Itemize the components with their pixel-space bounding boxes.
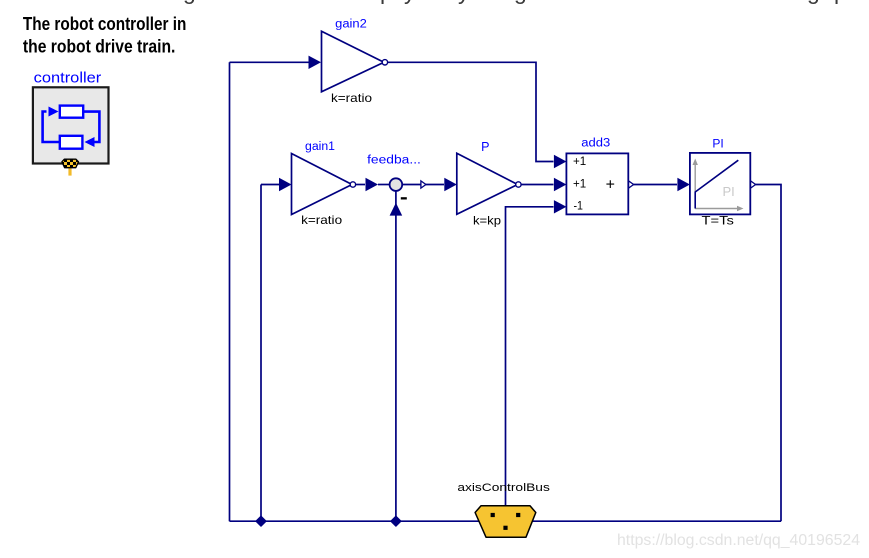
- P triangle: [457, 153, 518, 214]
- cropped serif text descenders at top edge: [183, 0, 847, 4]
- svg-text:axisControlBus: axisControlBus: [457, 482, 550, 494]
- svg-text:The robot controller in: The robot controller in: [23, 13, 187, 34]
- controller icon loop arrow left: [85, 137, 95, 147]
- feedback circle: [390, 178, 403, 191]
- svg-text:k=kp: k=kp: [473, 215, 502, 228]
- gain1 output circle: [350, 182, 355, 187]
- PI gray x-axis: [695, 208, 740, 210]
- arrow into feedback: [366, 178, 379, 191]
- PI gray y-axis: [694, 162, 696, 209]
- controller icon feedback loop wires: [43, 112, 100, 143]
- arrow into add3 top input: [554, 155, 567, 168]
- arrow into gain2: [309, 56, 322, 69]
- svg-text:https://blog.csdn.net/qq_40196: https://blog.csdn.net/qq_40196524: [617, 532, 860, 549]
- PI box: [690, 153, 750, 215]
- heading: The robot controller in the robot drive train.: [23, 13, 187, 57]
- wire: left vertical trunk: [229, 62, 231, 521]
- svg-text:g: g: [514, 0, 527, 4]
- svg-text:-1: -1: [574, 201, 584, 213]
- svg-text:p: p: [834, 0, 847, 4]
- svg-text:add3: add3: [581, 138, 610, 150]
- PI output open arrow: [751, 181, 756, 188]
- svg-text:+1: +1: [573, 156, 586, 168]
- arrow into PI: [677, 178, 690, 191]
- wire: arrow to feedback circle: [378, 184, 389, 186]
- junction dot feedback: [391, 516, 401, 526]
- bus dot 3: [503, 526, 507, 530]
- arrow into add3 middle: [554, 178, 567, 191]
- gain2 output circle: [382, 60, 387, 65]
- wire: feedback bottom vertical: [395, 191, 397, 521]
- arrow into add3 bottom input: [554, 200, 567, 213]
- svg-text:controller: controller: [34, 70, 102, 87]
- svg-text:g: g: [183, 0, 196, 4]
- P output circle: [516, 182, 521, 187]
- arrow into P: [444, 178, 457, 191]
- svg-text:g: g: [807, 0, 820, 4]
- controller icon lower block: [60, 136, 83, 149]
- svg-text:gain1: gain1: [305, 141, 335, 153]
- svg-text:k=ratio: k=ratio: [331, 92, 373, 105]
- wire: vertical to gain1: [261, 185, 280, 522]
- wire: gain1 to feedback: [356, 184, 365, 186]
- wire: bus up to add3 minus input: [506, 207, 554, 506]
- controller icon upper block: [60, 106, 83, 118]
- bus dot 1: [491, 513, 495, 517]
- svg-text:y: y: [458, 0, 470, 4]
- wire: gain2 output to add3 top input: [388, 62, 554, 161]
- controller icon loop arrow right: [49, 107, 59, 117]
- junction dot left: [256, 516, 266, 526]
- wire: top horizontal to gain2: [230, 61, 310, 63]
- add3 box: [566, 153, 628, 214]
- controller icon mini bus connector (checkered): [62, 159, 79, 168]
- svg-text:T=Ts: T=Ts: [702, 215, 734, 228]
- svg-text:+: +: [606, 177, 615, 194]
- controller icon bus connector stem: [68, 167, 71, 176]
- svg-text:P: P: [481, 140, 489, 154]
- add3 output open arrow: [629, 181, 634, 188]
- svg-text:k=ratio: k=ratio: [301, 214, 343, 227]
- PI response curve: [695, 160, 738, 208]
- minus sign at feedback: [401, 197, 407, 199]
- wire: feedback to P: [402, 184, 444, 186]
- svg-text:PI: PI: [723, 184, 735, 199]
- gain2 triangle: [322, 31, 385, 92]
- wire: PI output to right vertical: [755, 185, 781, 522]
- controller icon box: [33, 87, 109, 163]
- svg-text:gain2: gain2: [335, 18, 367, 30]
- open arrow after feedback: [421, 181, 426, 188]
- wire: P to add3: [521, 184, 554, 186]
- wire: add3 to PI: [633, 184, 677, 186]
- arrow into gain1: [279, 178, 292, 191]
- bus dot 2: [516, 513, 520, 517]
- gain1 triangle: [292, 154, 353, 215]
- svg-text:the robot drive train.: the robot drive train.: [23, 36, 176, 57]
- axisControlBus connector: [475, 506, 536, 537]
- svg-text:PI: PI: [712, 137, 723, 151]
- svg-text:feedba...: feedba...: [367, 154, 421, 166]
- svg-text:y: y: [404, 0, 416, 4]
- wire: bottom horizontal trunk: [230, 520, 782, 522]
- svg-text:p: p: [380, 0, 393, 4]
- svg-text:+1: +1: [573, 178, 586, 190]
- arrow up into feedback: [390, 203, 403, 216]
